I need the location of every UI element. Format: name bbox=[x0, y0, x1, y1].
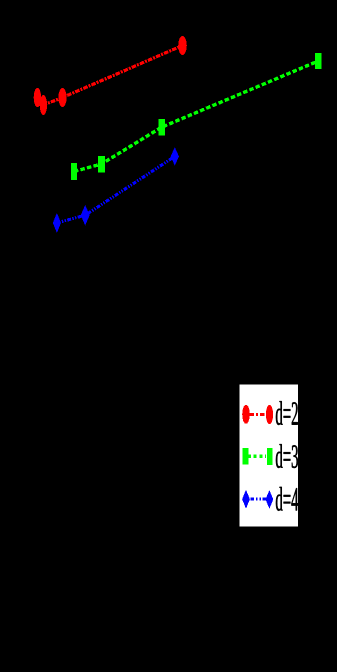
legend green marker left bbox=[243, 448, 249, 465]
legend blue marker left bbox=[242, 490, 250, 509]
green marker G1 bbox=[71, 163, 77, 180]
green marker G3 bbox=[158, 119, 164, 136]
legend green marker right bbox=[267, 448, 272, 465]
green series d=3 dashed line bbox=[74, 61, 318, 172]
legend blue sample line bbox=[251, 498, 267, 501]
legend blue marker right bbox=[266, 490, 274, 509]
green marker G4 bbox=[315, 53, 322, 69]
green marker G2 bbox=[98, 156, 105, 173]
red marker R2 bbox=[40, 95, 47, 115]
legend red marker left bbox=[242, 405, 250, 424]
legend label d=4 bbox=[276, 487, 298, 511]
blue marker B2 bbox=[81, 205, 90, 225]
red marker R1 bbox=[34, 88, 41, 107]
blue marker B3 bbox=[171, 147, 179, 165]
red series d=2 dash-dot line bbox=[37, 46, 182, 106]
legend green sample line bbox=[249, 455, 266, 458]
blue series d=4 dash-dot-dot line bbox=[57, 156, 175, 223]
blue marker B1 bbox=[53, 213, 61, 233]
legend red sample line bbox=[250, 413, 268, 416]
red marker R4 bbox=[178, 36, 187, 55]
legend box bbox=[239, 385, 298, 527]
legend label d=2 bbox=[276, 401, 298, 425]
legend red marker right bbox=[266, 405, 273, 424]
legend label d=3 bbox=[276, 444, 298, 468]
red marker R3 bbox=[58, 88, 66, 107]
